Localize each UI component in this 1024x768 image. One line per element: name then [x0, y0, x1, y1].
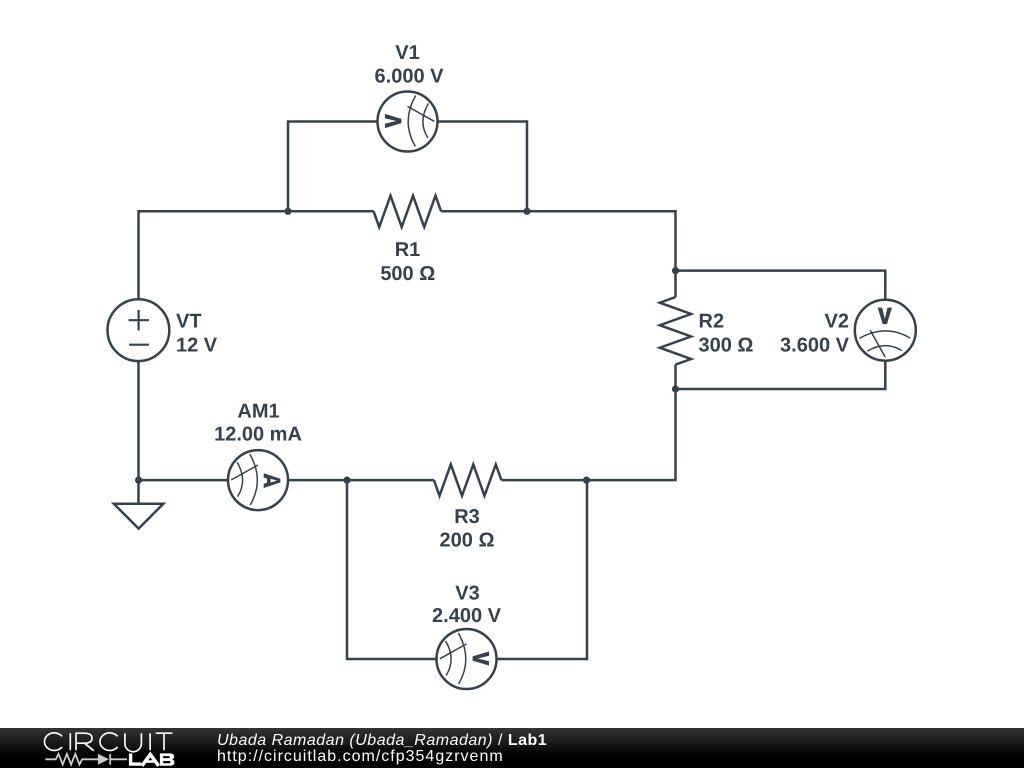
- wire: right vertical from R2 bottom to bottom rail: [674, 365, 677, 481]
- logo diode triangle: [98, 754, 109, 765]
- CircuitLab logo wordmark LAB: [131, 754, 159, 766]
- wire: VT bottom to ground node: [137, 361, 140, 480]
- wire: bottom rail from ground node to AM1: [139, 479, 229, 482]
- ammeter AM1 symbol: [228, 450, 288, 510]
- logo letter U: [125, 733, 141, 752]
- wire: left vertical + top rail to R1 left lead: [139, 211, 374, 299]
- junction node: bottom rail / V3 left: [343, 477, 350, 484]
- svg-text:300 Ω: 300 Ω: [699, 335, 754, 357]
- voltage source VT circle: [107, 299, 169, 361]
- svg-text:VT: VT: [176, 311, 202, 333]
- svg-text:6.000 V: 6.000 V: [375, 66, 445, 88]
- footer bar: [0, 728, 1024, 768]
- logo letter C: [100, 733, 118, 751]
- wire: V3 branch right: [497, 480, 588, 659]
- wire: ground stub: [137, 480, 140, 504]
- voltmeter V1 symbol: [378, 92, 438, 152]
- svg-text:R2: R2: [699, 311, 725, 333]
- ground symbol: [114, 504, 164, 529]
- svg-text:12.00 mA: 12.00 mA: [214, 424, 302, 446]
- logo letter I: [69, 733, 71, 750]
- junction node: top rail / V1 left: [284, 208, 291, 215]
- wire: bottom rail R3 right lead to right vertical: [501, 479, 676, 482]
- junction node: top rail / V1 right: [523, 208, 530, 215]
- junction node: R2 top / V2 branch: [672, 267, 679, 274]
- svg-text:V1: V1: [395, 42, 419, 64]
- svg-text:V2: V2: [825, 311, 849, 333]
- svg-text:V3: V3: [455, 583, 479, 605]
- wire: V1 branch left (node A up and over to V1): [288, 122, 378, 212]
- wire: top rail right + right vertical down to R2 top: [441, 211, 675, 297]
- svg-text:200 Ω: 200 Ω: [440, 530, 495, 552]
- footer credit text: [217, 733, 547, 765]
- VT minus sign: [129, 344, 149, 346]
- VT plus sign: [129, 310, 149, 330]
- svg-text:AM1: AM1: [237, 401, 279, 423]
- junction node: bottom rail / V3 right: [583, 477, 590, 484]
- wire: V3 branch left: [347, 480, 437, 659]
- logo letter C: [44, 733, 62, 751]
- resistor R1: [374, 196, 442, 227]
- svg-text:12 V: 12 V: [176, 335, 218, 357]
- logo letter R: [76, 733, 94, 751]
- wire: V2 branch top: [676, 271, 886, 301]
- svg-text:500 Ω: 500 Ω: [380, 263, 435, 285]
- junction node: ground / bottom rail: [135, 477, 142, 484]
- voltmeter V2 symbol: [855, 300, 916, 361]
- svg-text:R3: R3: [454, 506, 480, 528]
- junction node: R2 bottom / V2 branch: [672, 385, 679, 392]
- resistor R3: [434, 465, 502, 496]
- logo letter I: [149, 733, 151, 750]
- wire: bottom rail AM1 to R3 left lead: [288, 479, 434, 482]
- svg-text:2.400 V: 2.400 V: [432, 605, 502, 627]
- resistor R2: [660, 297, 691, 365]
- voltmeter V3 symbol: [437, 629, 497, 689]
- logo mini schematic resistor and diode: [45, 754, 127, 765]
- logo letter T: [156, 733, 173, 750]
- wire: V2 branch bottom: [676, 360, 886, 389]
- svg-text:3.600 V: 3.600 V: [780, 335, 850, 357]
- svg-text:R1: R1: [395, 239, 421, 261]
- wire: V1 branch right (V1 over and down to node B): [438, 122, 528, 212]
